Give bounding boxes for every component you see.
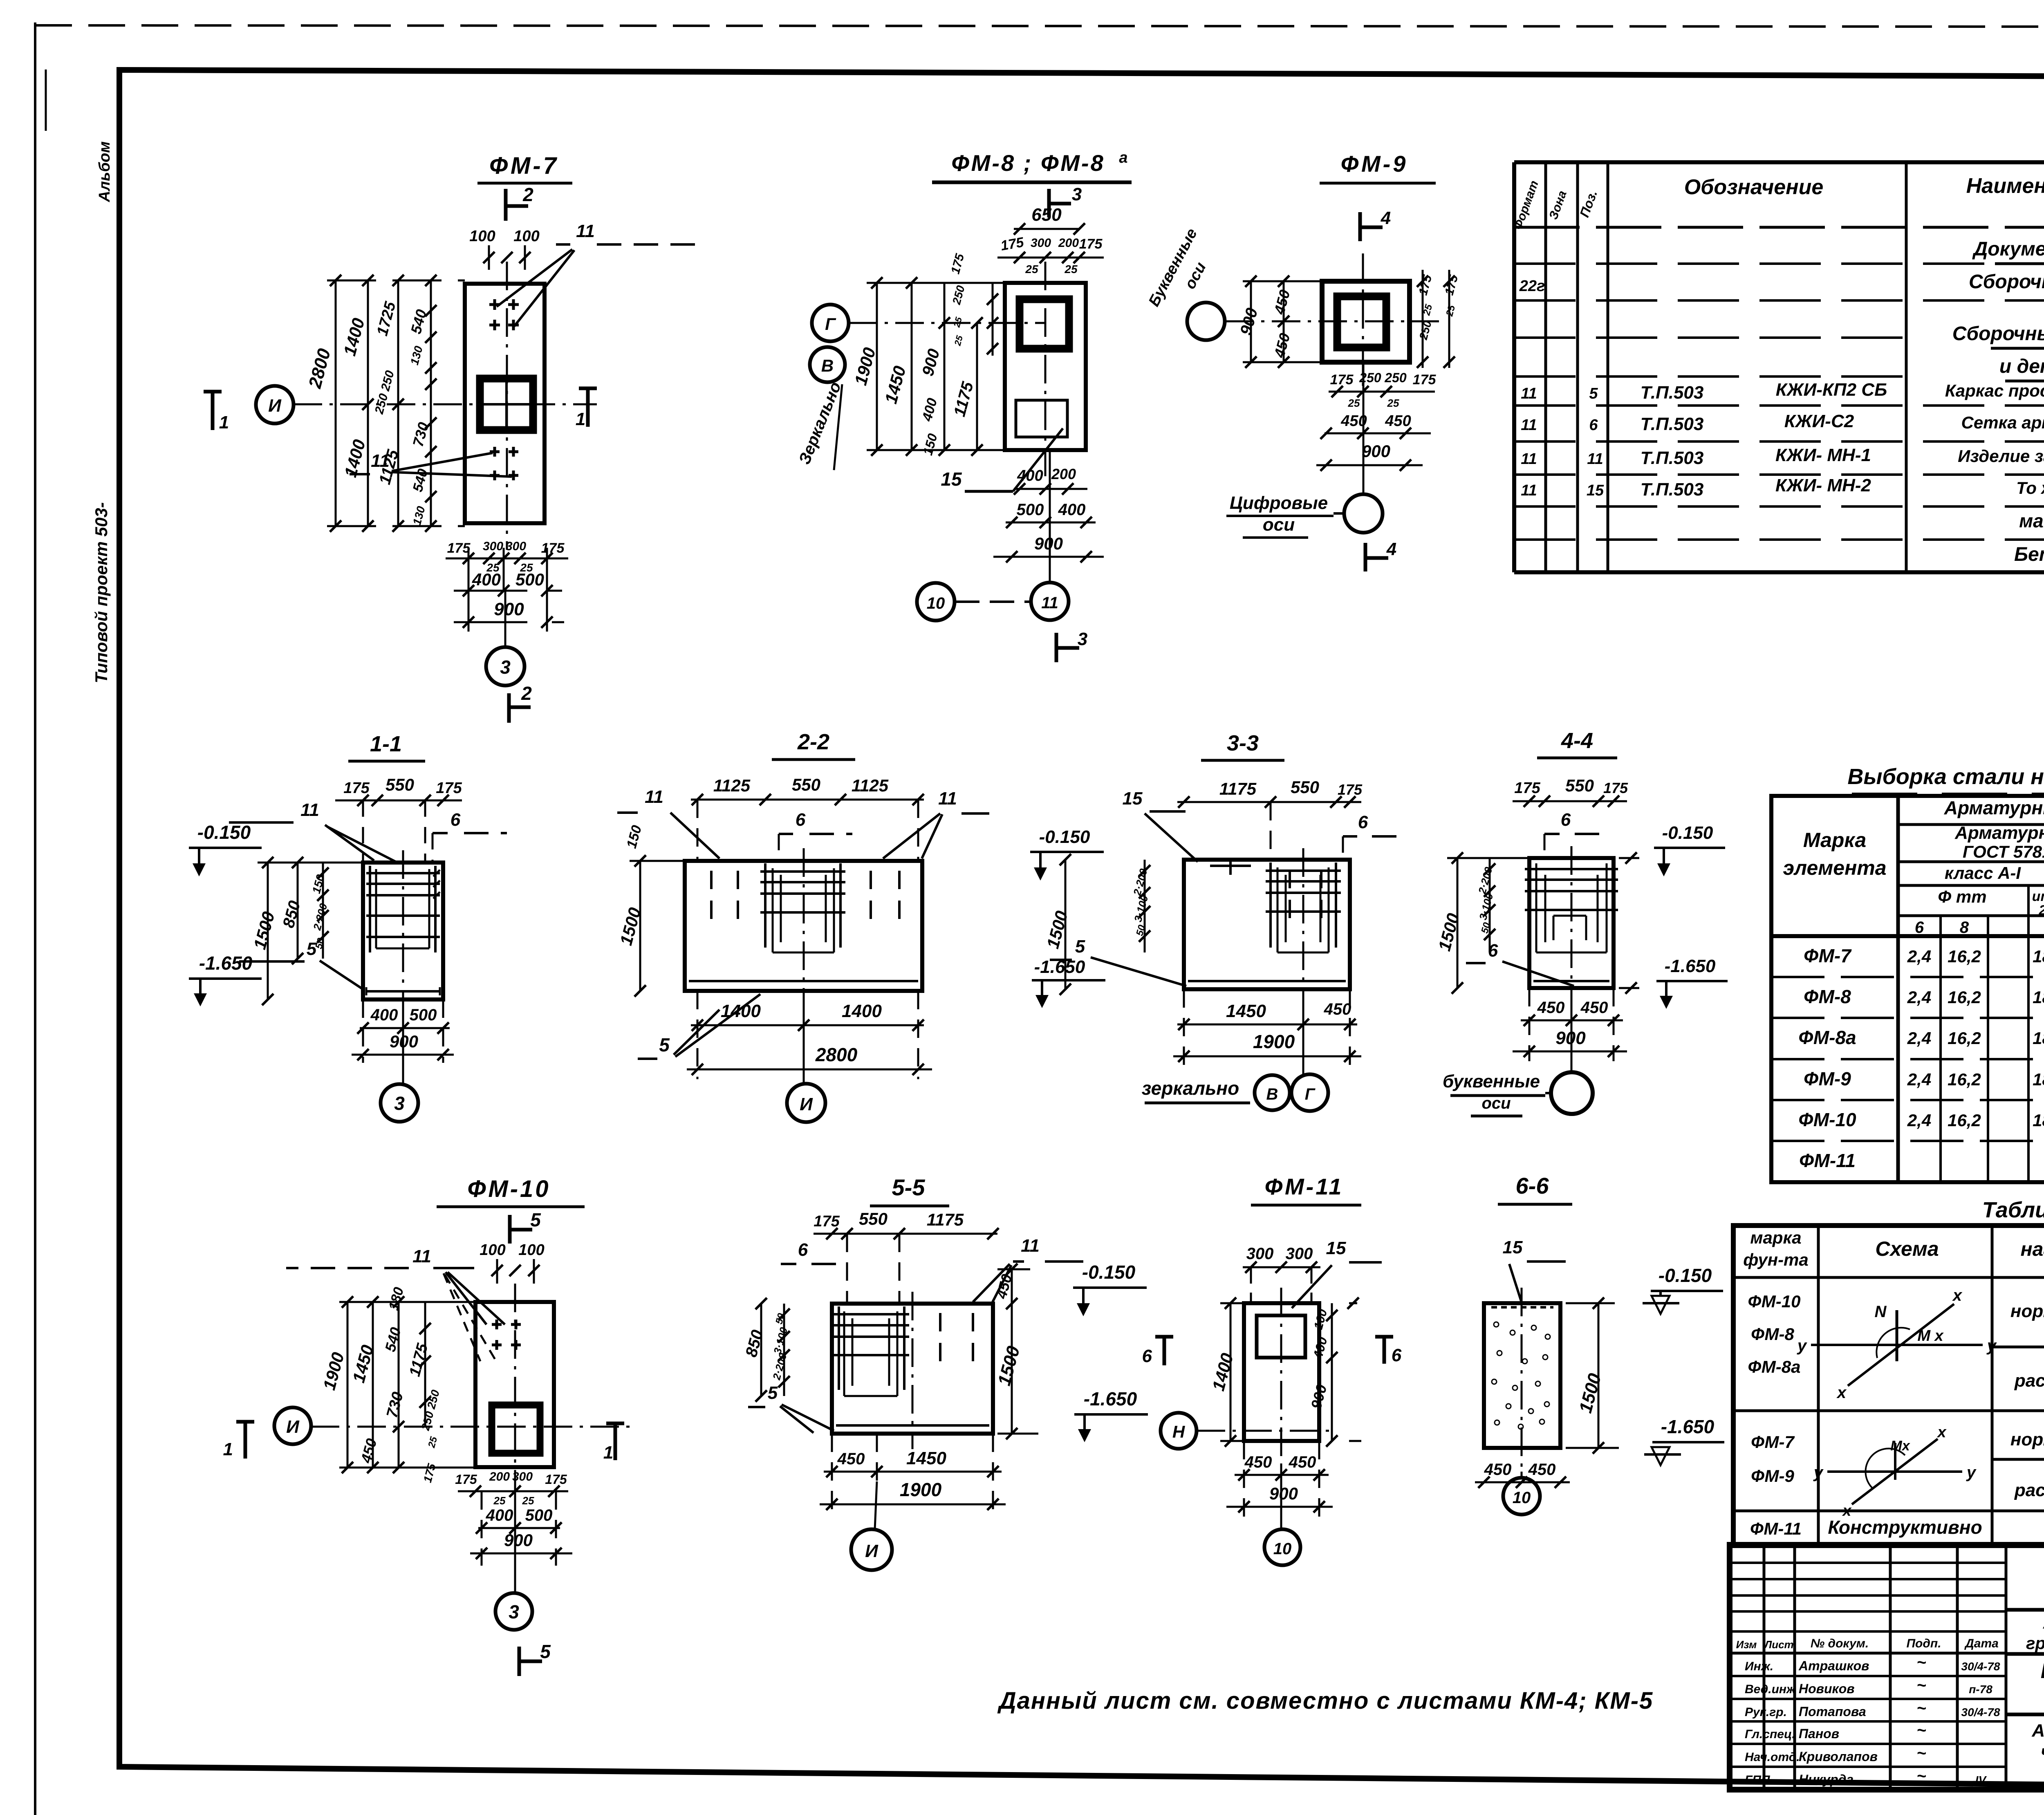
svg-text:-0.150: -0.150	[1659, 1265, 1712, 1286]
svg-text:6: 6	[1561, 810, 1571, 830]
svg-text:ФМ-7: ФМ-7	[1804, 945, 1852, 966]
FM-7 section mark 2 top	[506, 184, 533, 221]
svg-text:1900: 1900	[900, 1479, 942, 1500]
svg-text:КЖИ- МН-1: КЖИ- МН-1	[1775, 445, 1871, 465]
svg-text:нагрузки: нагрузки	[2021, 1239, 2044, 1260]
svg-text:175: 175	[447, 540, 471, 556]
svg-text:25: 25	[522, 1495, 534, 1507]
3-3 left dim 1500	[1043, 854, 1071, 995]
svg-text:300: 300	[483, 540, 503, 553]
FM-8 section mark 3 top	[1049, 184, 1082, 217]
svg-text:11: 11	[1041, 594, 1058, 612]
svg-text:900: 900	[1362, 441, 1390, 461]
svg-text:у: у	[1966, 1463, 1977, 1481]
FM-11 bottom dims	[1226, 1441, 1333, 1517]
svg-text:550: 550	[1291, 778, 1319, 797]
svg-text:6: 6	[796, 810, 806, 830]
title block sheet name	[2031, 1721, 2044, 1783]
title block grid	[1730, 1545, 2044, 1790]
load table block2 schema	[1813, 1424, 1977, 1519]
FM-8 axis line G	[849, 322, 1045, 324]
svg-text:500: 500	[1017, 501, 1044, 519]
title block name	[2041, 1659, 2044, 1709]
2-2 leader 11 right	[883, 789, 989, 858]
svg-text:расчетная: расчетная	[2014, 1480, 2044, 1500]
FM-9 horizontal centerline	[1225, 320, 1439, 323]
svg-text:175: 175	[343, 780, 370, 797]
svg-text:15: 15	[1123, 789, 1143, 809]
sheet outer edge left	[35, 22, 46, 1815]
3-3 left elevation -1.650	[1032, 957, 1105, 1008]
svg-text:300: 300	[506, 540, 526, 553]
spec row KP2	[1521, 380, 2044, 403]
FM-8 axis circle V	[810, 347, 845, 382]
FM-10 horizontal centerline	[311, 1426, 630, 1428]
svg-text:Цифровые: Цифровые	[1230, 493, 1328, 513]
svg-text:400: 400	[1058, 501, 1086, 519]
svg-text:6: 6	[798, 1240, 808, 1260]
2-2 column cage	[760, 863, 845, 952]
5-5 bottom slab line	[836, 1424, 989, 1427]
load table grid	[1733, 1226, 2044, 1546]
svg-text:250: 250	[1384, 370, 1407, 385]
svg-text:~: ~	[1916, 1721, 1926, 1739]
load table block2 raschet	[2014, 1480, 2044, 1502]
svg-text:5: 5	[540, 1641, 551, 1662]
svg-text:элемента: элемента	[1783, 856, 1886, 879]
FM-9 letter axes note	[1145, 226, 1210, 309]
FM-8 lower pocket MN	[1016, 400, 1067, 437]
svg-text:20:: 20:	[2038, 903, 2044, 918]
svg-text:3: 3	[500, 657, 511, 678]
svg-text:5: 5	[768, 1383, 778, 1403]
4-4 centerline	[1571, 846, 1573, 1006]
FM-8 left dim texts	[851, 252, 998, 457]
svg-text:у: у	[1797, 1337, 1807, 1355]
1-1 axis circle 3	[381, 1008, 418, 1122]
svg-text:15: 15	[1503, 1237, 1523, 1257]
svg-text:-0.150: -0.150	[1662, 823, 1713, 843]
svg-text:650: 650	[1031, 205, 1062, 225]
load table block1 marks	[1748, 1292, 1801, 1376]
svg-text:1: 1	[576, 409, 585, 429]
svg-text:2,4: 2,4	[1907, 1028, 1931, 1048]
spec row sborochny chertezh	[1519, 271, 2044, 295]
1-1 bottom dims	[352, 999, 454, 1063]
FM-10 left dim texts	[319, 1286, 442, 1484]
svg-text:6: 6	[1488, 941, 1498, 961]
svg-text:Рук.гр.: Рук.гр.	[1745, 1705, 1787, 1719]
svg-text:Данный лист см. совместно: Данный лист см. совместно с листами КМ-4…	[997, 1687, 1654, 1714]
plan FM-10 title	[437, 1176, 585, 1207]
3-3 column cage	[1266, 863, 1341, 952]
FM-7 section mark 2 bottom	[509, 683, 532, 723]
svg-text:4-4: 4-4	[1561, 728, 1593, 753]
specification table grid	[1514, 162, 2044, 572]
svg-text:6: 6	[1142, 1346, 1152, 1366]
svg-text:5: 5	[1075, 937, 1085, 957]
6-6 top mesh	[1491, 1306, 1553, 1309]
FM-9 right dims	[1416, 270, 1461, 368]
svg-text:11: 11	[1521, 417, 1537, 434]
FM-8 axis circle 11	[1031, 450, 1069, 620]
2-2 leader 11 left	[613, 787, 719, 858]
steel table title	[1847, 764, 2044, 794]
svg-text:1175: 1175	[1219, 779, 1257, 798]
svg-text:ФМ-11: ФМ-11	[1750, 1519, 1802, 1538]
3-3 dashed bars	[1290, 870, 1321, 924]
svg-text:250: 250	[1359, 370, 1381, 385]
FM-10 section mark 5 bottom	[519, 1641, 551, 1676]
svg-text:175: 175	[1079, 236, 1103, 252]
FM-8 footing outline	[1005, 283, 1086, 450]
svg-text:x: x	[1952, 1286, 1963, 1304]
svg-text:18,6: 18,6	[2033, 947, 2044, 966]
svg-text:расчетная: расчетная	[2014, 1371, 2044, 1391]
spec row sborochnye edinitsy	[1952, 323, 2044, 348]
svg-text:Гл.спец.: Гл.спец.	[1745, 1728, 1795, 1741]
svg-text:фун-та: фун-та	[1743, 1250, 1809, 1269]
5-5 leader 5	[748, 1383, 834, 1433]
steel table header texts	[1783, 797, 2044, 937]
FM-10 top dim 100 100	[480, 1241, 544, 1284]
svg-text:Т.П.503: Т.П.503	[1641, 480, 1704, 500]
svg-text:~: ~	[1916, 1699, 1926, 1717]
FM-9 vertical centerline	[1362, 253, 1364, 392]
svg-text:450: 450	[1244, 1453, 1272, 1471]
FM-8 mirror note	[796, 379, 845, 470]
svg-text:25: 25	[1025, 263, 1038, 276]
sheet outer edge top	[35, 25, 2044, 27]
FM-10 footing outline	[475, 1302, 554, 1467]
svg-text:3: 3	[394, 1093, 405, 1114]
FM-10 anchor bolts	[492, 1320, 521, 1350]
svg-text:11: 11	[1521, 385, 1537, 402]
svg-text:200: 200	[1051, 466, 1076, 482]
6-6 right dim 1500	[1566, 1297, 1619, 1454]
svg-text:ФМ-7: ФМ-7	[489, 152, 559, 179]
FM-7 section mark 1 right	[576, 388, 597, 429]
5-5 dashed bars	[940, 1313, 973, 1367]
svg-text:-0.150: -0.150	[1082, 1262, 1136, 1283]
svg-text:4: 4	[1386, 539, 1396, 559]
svg-text:1450: 1450	[906, 1448, 946, 1468]
svg-text:То же: То же	[2016, 478, 2044, 497]
svg-text:175: 175	[1514, 780, 1540, 797]
svg-text:Ф mm: Ф mm	[1938, 887, 1986, 906]
svg-text:ГОСТ 5781-75: ГОСТ 5781-75	[1963, 842, 2044, 861]
FM-7 leader 11 bottom	[339, 451, 512, 477]
3-3 centerline	[1302, 848, 1304, 1006]
FM-11 top dims	[1243, 1245, 1320, 1303]
section 4-4 title	[1537, 728, 1617, 758]
svg-text:-1.650: -1.650	[1084, 1388, 1137, 1409]
svg-text:16,2: 16,2	[1948, 988, 1981, 1007]
svg-text:Типовой проект 503-: Типовой проект 503-	[92, 502, 111, 683]
svg-text:ФМ-10: ФМ-10	[467, 1176, 550, 1202]
svg-text:оси: оси	[1481, 1094, 1511, 1112]
svg-text:5: 5	[1589, 385, 1598, 402]
4-4 letter axes note	[1443, 1071, 1545, 1116]
FM-7 bottom dim 400 500	[454, 548, 562, 632]
section 2-2 title	[772, 730, 855, 760]
load table row FM-11	[1750, 1517, 2044, 1538]
1-1 rebar cage	[366, 866, 440, 952]
FM-9 section mark 4 bottom	[1365, 539, 1396, 571]
svg-text:ФМ-11: ФМ-11	[1799, 1150, 1856, 1171]
FM-7 section mark 1 left	[204, 392, 229, 432]
1-1 leader 6	[433, 810, 507, 863]
svg-text:3: 3	[509, 1601, 519, 1622]
steel table data	[1798, 945, 2044, 1171]
FM-9 column pocket	[1337, 296, 1386, 347]
svg-text:5: 5	[659, 1034, 670, 1055]
svg-text:2-2: 2-2	[797, 730, 829, 754]
svg-text:550: 550	[859, 1209, 888, 1228]
FM-10 leader 11	[286, 1246, 505, 1362]
svg-text:25: 25	[1348, 397, 1360, 409]
svg-text:6-6: 6-6	[1516, 1173, 1549, 1199]
svg-text:16,2: 16,2	[1948, 1028, 1981, 1048]
FM-10 axis circle I	[274, 1407, 311, 1444]
svg-text:Панов: Панов	[1799, 1726, 1839, 1741]
svg-text:175: 175	[1338, 781, 1363, 798]
svg-text:2,4: 2,4	[1907, 988, 1931, 1007]
6-6 bottom dims	[1475, 1461, 1570, 1488]
svg-text:3: 3	[1072, 184, 1082, 204]
svg-text:2800: 2800	[815, 1044, 858, 1065]
svg-text:Изм: Изм	[1736, 1638, 1757, 1651]
3-3 bottom slab line	[1188, 980, 1346, 982]
FM-11 axis circle 10	[1264, 1463, 1300, 1565]
svg-text:Арматурные изделия: Арматурные изделия	[1944, 797, 2044, 818]
svg-text:-0.150: -0.150	[1039, 827, 1090, 847]
FM-7 left dim texts	[305, 300, 432, 527]
FM-11 leader 15	[1292, 1238, 1382, 1308]
svg-text:11: 11	[1521, 450, 1537, 468]
svg-text:IV: IV	[1975, 1774, 1987, 1786]
2-2 bottom dims	[687, 991, 932, 1079]
svg-text:материал:: материал:	[2019, 510, 2044, 531]
5-5 axis circle I	[851, 1481, 892, 1570]
svg-text:900: 900	[504, 1530, 533, 1550]
svg-text:ФМ-8а: ФМ-8а	[1748, 1357, 1801, 1376]
FM-8 left dim chain	[867, 277, 1005, 456]
svg-text:175: 175	[436, 780, 462, 797]
svg-text:ФМ-7: ФМ-7	[1751, 1432, 1795, 1452]
svg-text:10: 10	[1273, 1540, 1292, 1558]
svg-text:№ докум.: № докум.	[1811, 1637, 1869, 1650]
svg-text:КЖИ-КП2 СБ: КЖИ-КП2 СБ	[1776, 380, 1887, 400]
4-4 cage	[1525, 863, 1618, 952]
svg-text:1125: 1125	[852, 776, 889, 795]
6-6 elevation -1.650	[1644, 1416, 1724, 1465]
1-1 outline	[363, 863, 443, 999]
svg-text:Лист: Лист	[1764, 1638, 1793, 1651]
svg-text:500: 500	[515, 570, 544, 589]
svg-text:6: 6	[1358, 812, 1368, 832]
svg-text:Нач.отд.: Нач.отд.	[1745, 1750, 1800, 1764]
svg-text:~: ~	[1916, 1767, 1926, 1785]
svg-text:Потапова: Потапова	[1799, 1704, 1866, 1719]
load table block2 marks	[1751, 1432, 1795, 1486]
1-1 top dims	[335, 775, 462, 863]
load table header	[1743, 1228, 2044, 1270]
svg-text:x: x	[1836, 1384, 1847, 1402]
svg-text:x: x	[1936, 1424, 1947, 1441]
svg-text:300: 300	[1246, 1245, 1274, 1263]
1-1 elevation -1.650	[189, 952, 262, 1006]
svg-text:1-1: 1-1	[370, 732, 402, 756]
FM-10 left dim chain	[339, 1296, 475, 1473]
svg-text:Сборочный чертеж: Сборочный чертеж	[1969, 271, 2044, 293]
FM-9 digit axes note	[1226, 493, 1334, 538]
section 1-1 title	[348, 732, 425, 761]
svg-text:оси: оси	[1263, 515, 1295, 535]
svg-text:175: 175	[814, 1213, 840, 1230]
FM-11 pocket	[1257, 1315, 1305, 1358]
FM-9 bottom small dims	[1329, 370, 1436, 409]
svg-text:450: 450	[1580, 999, 1608, 1017]
5-5 top dims	[814, 1209, 999, 1304]
svg-text:ито-: ито-	[2032, 889, 2044, 904]
svg-text:Атрашков: Атрашков	[1798, 1658, 1869, 1673]
FM-7 bottom small dims	[446, 540, 568, 574]
svg-text:Выборка стали на один элеме: Выборка стали на один элемент, кг	[1847, 764, 2044, 789]
3-3 bottom dims	[1173, 989, 1361, 1066]
2-2 left dims	[616, 824, 685, 997]
svg-text:Обозначение: Обозначение	[1684, 175, 1824, 199]
3-3 top dims	[1177, 778, 1363, 860]
svg-text:900: 900	[494, 599, 524, 619]
svg-text:10: 10	[1513, 1489, 1531, 1507]
FM-11 section mark 6 right	[1375, 1337, 1402, 1365]
plan FM-8 title	[932, 149, 1132, 182]
FM-8 top dims 175 300 200 175	[997, 234, 1104, 276]
svg-text:11: 11	[1587, 450, 1603, 468]
svg-text:нормативн.: нормативн.	[2010, 1430, 2044, 1450]
FM-7 footing outline	[465, 284, 545, 523]
svg-text:450: 450	[1537, 999, 1565, 1017]
svg-text:10: 10	[927, 594, 945, 612]
svg-text:И: И	[268, 396, 282, 416]
5-5 column cage	[834, 1306, 909, 1396]
5-5 section mark 6 right	[1142, 1337, 1173, 1366]
load table block1 normativ	[2010, 1301, 2044, 1323]
3-3 leader 6	[1343, 812, 1406, 860]
FM-8 leader 15	[941, 428, 1063, 491]
4-4 axis circle	[1545, 1006, 1593, 1114]
svg-text:550: 550	[385, 775, 414, 794]
svg-text:11: 11	[645, 787, 663, 807]
FM-11 right dims	[1307, 1297, 1361, 1447]
FM-10 section mark 5 top	[510, 1209, 541, 1244]
svg-text:16,2: 16,2	[1948, 1070, 1981, 1089]
FM-7 column pocket	[480, 379, 533, 430]
1-1 leader 11	[229, 800, 396, 862]
svg-text:11: 11	[938, 789, 957, 809]
svg-text:у: у	[1813, 1463, 1824, 1481]
5-5 left small chain	[770, 1304, 790, 1396]
svg-text:ФМ-8: ФМ-8	[1804, 986, 1851, 1007]
spec row documentation	[1972, 238, 2044, 264]
FM-7 left dim chain lines	[327, 275, 465, 532]
FM-7 anchor bolts top	[489, 299, 519, 330]
FM-10 bottom dim 400 500	[476, 1506, 562, 1534]
FM-8 bottom dims	[993, 466, 1104, 562]
3-3 mirror note	[1142, 1078, 1250, 1103]
svg-text:4: 4	[1381, 208, 1391, 228]
FM-8 column pocket	[1020, 299, 1069, 349]
5-5 leader 11	[973, 1236, 1083, 1302]
3-3 axis circles V G	[1255, 1006, 1328, 1111]
svg-text:450: 450	[1324, 1000, 1351, 1018]
svg-text:900: 900	[1269, 1484, 1298, 1503]
svg-text:1125: 1125	[713, 776, 751, 795]
5-5 bottom dims	[820, 1434, 1006, 1514]
svg-text:15: 15	[1326, 1238, 1346, 1258]
6-6 outline	[1484, 1303, 1560, 1448]
svg-text:300: 300	[1031, 236, 1051, 250]
svg-text:15: 15	[1587, 482, 1604, 499]
svg-text:100: 100	[480, 1241, 505, 1259]
svg-text:1175: 1175	[927, 1210, 964, 1229]
svg-text:11: 11	[1521, 482, 1537, 499]
FM-11 footing outline	[1244, 1303, 1319, 1441]
6-6 axis circle 10	[1503, 1472, 1540, 1515]
svg-text:175: 175	[455, 1472, 477, 1487]
FM-10 column pocket	[492, 1405, 540, 1453]
svg-text:100: 100	[469, 228, 495, 245]
svg-text:~: ~	[1916, 1676, 1926, 1694]
svg-text:550: 550	[792, 775, 820, 794]
svg-text:Н: Н	[1172, 1422, 1186, 1441]
svg-text:Подп.: Подп.	[1906, 1637, 1941, 1650]
svg-text:-0.150: -0.150	[197, 822, 251, 843]
2-2 centerline	[803, 848, 805, 1006]
svg-text:550: 550	[1565, 776, 1594, 795]
FM-8 section mark 3 bottom	[1056, 629, 1087, 662]
svg-text:11: 11	[576, 221, 595, 241]
5-5 elevation -0.150	[1073, 1262, 1147, 1316]
svg-text:6: 6	[450, 810, 461, 830]
svg-text:5: 5	[530, 1209, 541, 1230]
svg-text:И: И	[865, 1541, 879, 1561]
svg-text:400: 400	[1017, 467, 1043, 484]
svg-text:400: 400	[472, 570, 501, 589]
4-4 left dim 1500	[1434, 852, 1529, 994]
svg-text:марка: марка	[1750, 1228, 1801, 1247]
svg-text:25: 25	[1064, 263, 1078, 276]
svg-text:Арматурно-опалубочные: Арматурно-опалубочные	[2031, 1721, 2044, 1741]
svg-text:400: 400	[486, 1506, 513, 1524]
svg-text:Таблица нагрузок: Таблица нагрузок	[1982, 1198, 2044, 1222]
FM-7 vertical centerline	[506, 262, 508, 550]
svg-text:2,4: 2,4	[1907, 1111, 1931, 1130]
svg-text:Инж.: Инж.	[1745, 1660, 1773, 1673]
5-5 right dim 450 1500	[993, 1264, 1038, 1439]
title block staff header	[1736, 1637, 1999, 1651]
svg-text:а: а	[1119, 149, 1127, 166]
6-6 leader 15	[1503, 1237, 1566, 1305]
svg-text:чертежи фундаментов.: чертежи фундаментов.	[2041, 1742, 2044, 1762]
plan FM-9 title	[1320, 151, 1436, 183]
2-2 bottom slab lines	[689, 980, 918, 982]
svg-text:Г: Г	[1305, 1085, 1316, 1103]
2-2 leader 6	[779, 810, 852, 861]
2-2 leader 5	[638, 994, 760, 1059]
svg-text:Мx: Мx	[1890, 1438, 1910, 1454]
